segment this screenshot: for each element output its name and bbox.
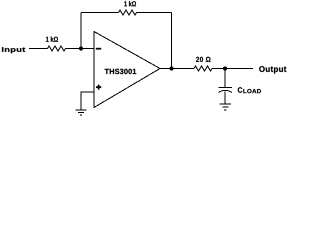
value label R3 20 Ohm	[196, 57, 211, 62]
junction node at inverting input	[79, 46, 83, 50]
ground G1 (non-inverting input)	[76, 110, 87, 115]
junction node feedback/output	[169, 66, 173, 70]
node Output label	[259, 66, 286, 73]
wire R1 to inverting input	[66, 48, 95, 50]
op-amp U1 THS3001 triangle	[94, 32, 160, 108]
node Input label	[2, 47, 25, 53]
op-amp inverting input minus sign	[96, 48, 101, 50]
wire R3 to output	[212, 68, 253, 70]
value label R1 1 kOhm	[46, 37, 58, 42]
op-amp label THS3001	[105, 69, 136, 74]
value label R2 1 kOhm	[124, 1, 136, 6]
junction node at capacitor tap	[223, 66, 227, 70]
wire feedback right vertical	[171, 13, 173, 69]
wire feedback left vertical	[80, 13, 82, 49]
wire input lead	[29, 48, 48, 50]
wire non-inverting input lead	[81, 92, 94, 110]
wire capacitor top lead	[224, 69, 226, 88]
wire feedback top right segment	[137, 12, 172, 14]
ground G2 (capacitor)	[220, 104, 232, 110]
wire feedback top left segment	[81, 12, 119, 14]
wire capacitor bottom lead	[224, 91, 226, 104]
resistor R2 1 kOhm (feedback)	[119, 10, 137, 15]
capacitor C_LOAD top plate	[219, 87, 233, 89]
value label C_LOAD	[238, 87, 261, 93]
resistor R3 20 Ohm (output)	[194, 66, 212, 71]
capacitor C_LOAD bottom curved plate	[219, 90, 233, 92]
wire output rail from op-amp apex	[160, 68, 194, 70]
op-amp non-inverting input plus sign	[96, 85, 101, 90]
resistor R1 1 kOhm (input)	[48, 46, 66, 51]
